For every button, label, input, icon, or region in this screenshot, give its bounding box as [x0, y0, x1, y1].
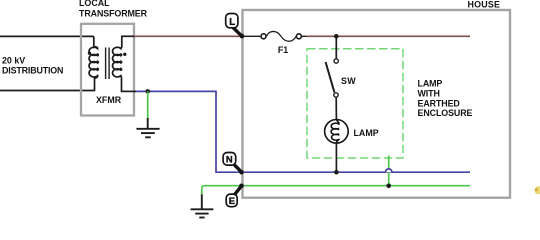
svg-text:XFMR: XFMR — [96, 95, 122, 105]
svg-text:L: L — [229, 17, 235, 28]
wire: switch to lamp — [335, 97, 337, 120]
wire: drop from live junction to switch — [335, 36, 337, 59]
label: 20 kV DISTRIBUTION — [2, 56, 63, 76]
artifact: small yellow mark bottom right — [535, 186, 540, 194]
transformer box (gray outline) — [81, 24, 134, 116]
node: lamp-neutral junction dot — [334, 170, 339, 175]
wire: secondary top lead (black) to box edge — [121, 35, 135, 37]
wire: lamp to neutral — [335, 143, 337, 172]
transformer XFMR secondary winding — [113, 36, 122, 91]
svg-text:LAMP: LAMP — [418, 79, 443, 89]
svg-text:TRANSFORMER: TRANSFORMER — [79, 9, 148, 19]
ground: earth electrode at house — [191, 195, 214, 218]
switch SW — [326, 59, 339, 97]
wire: neutral hop over earth riser — [385, 169, 392, 172]
wire: live (brown) after fuse into house — [307, 35, 471, 37]
wire: green riser from enclosure to earth — [388, 156, 390, 186]
transformer primary polarity dot — [88, 52, 91, 55]
svg-text:LOCAL: LOCAL — [79, 0, 110, 8]
wire: earth (green) main run — [202, 186, 470, 196]
terminal E callout — [226, 186, 241, 207]
transformer secondary polarity dot — [123, 53, 126, 56]
node: earth riser junction dot — [386, 184, 391, 189]
svg-text:WITH: WITH — [418, 89, 440, 99]
terminal L callout — [226, 14, 242, 36]
node: switch branch junction on live — [334, 34, 339, 39]
wire: live (brown) from transformer to L terminal — [134, 35, 242, 37]
svg-text:E: E — [229, 195, 235, 206]
wire: 20kV distribution bottom line — [0, 90, 95, 92]
label: LAMP WITH EARTHED ENCLOSURE — [418, 79, 473, 119]
wire: neutral (blue) from transformer, down and right to house — [136, 91, 470, 172]
node: N junction dot — [239, 170, 244, 175]
svg-text:SW: SW — [341, 76, 356, 86]
transformer XFMR primary winding — [89, 36, 98, 90]
label: LOCAL TRANSFORMER — [79, 0, 148, 19]
svg-text:ENCLOSURE: ENCLOSURE — [418, 108, 473, 118]
wire: green earth drop from neutral junction — [147, 91, 149, 120]
svg-text:F1: F1 — [278, 45, 288, 55]
wire: 20kV distribution top line — [0, 35, 94, 37]
junction dot on neutral at earth tap — [145, 89, 150, 94]
svg-text:N: N — [226, 153, 233, 164]
node: E junction dot — [239, 184, 244, 189]
house box (gray outline) — [243, 10, 511, 198]
wire: secondary bottom lead (black) — [121, 90, 137, 92]
lamp — [325, 119, 349, 143]
svg-text:EARTHED: EARTHED — [418, 98, 461, 108]
transformer core — [106, 48, 110, 80]
svg-text:HOUSE: HOUSE — [468, 0, 501, 9]
svg-text:20 kV: 20 kV — [2, 56, 25, 66]
svg-text:LAMP: LAMP — [354, 128, 379, 138]
lamp enclosure dashed box — [307, 49, 403, 158]
node: L junction dot — [240, 34, 245, 39]
wire: black lead from L dot to fuse — [242, 35, 261, 37]
ground: supply earth — [136, 118, 159, 137]
svg-text:DISTRIBUTION: DISTRIBUTION — [2, 65, 63, 75]
terminal N callout — [223, 153, 241, 172]
fuse F1 — [261, 31, 307, 41]
